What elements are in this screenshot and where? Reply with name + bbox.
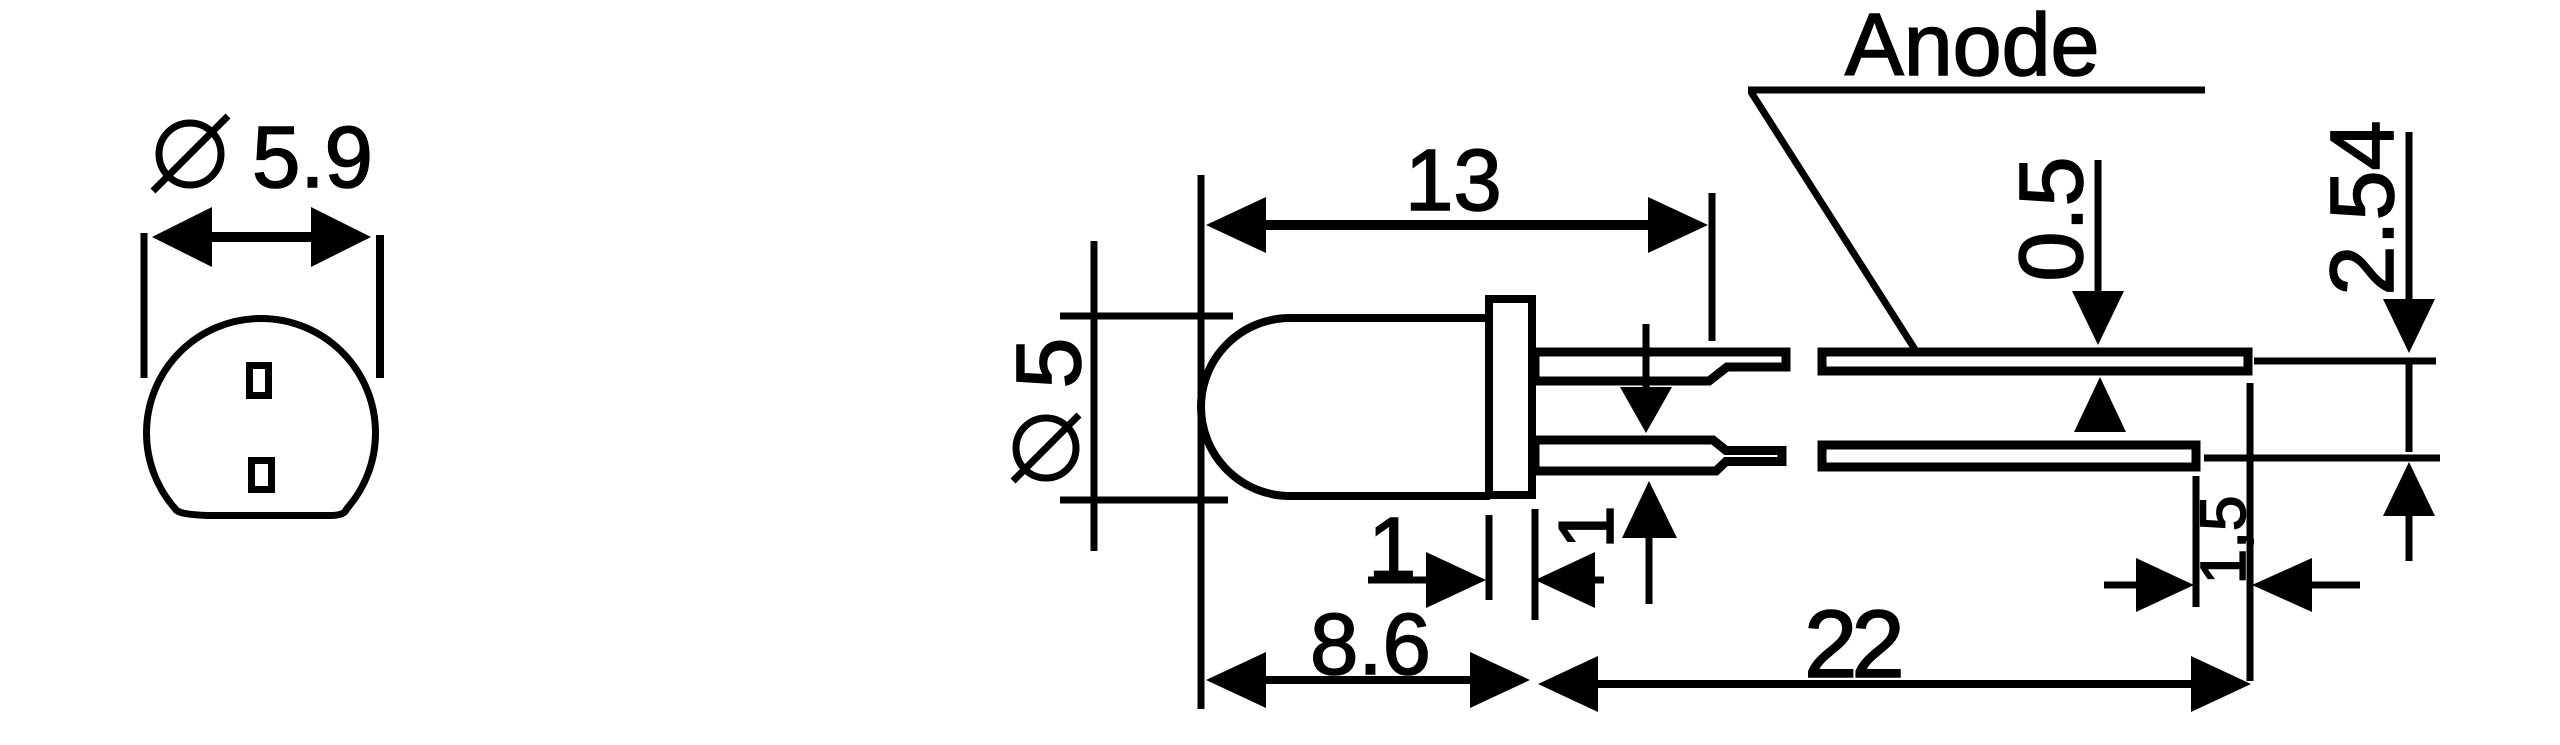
dimension line 5.9 (206, 232, 316, 242)
svg-text:5: 5 (998, 337, 1100, 388)
extension line from bottom lead end (2204, 455, 2440, 462)
svg-text:1: 1 (1542, 505, 1630, 548)
2.54 dim line lower tail (2406, 514, 2413, 561)
arrowhead down to lead top (2072, 291, 2124, 345)
dim line 1 left part (1368, 577, 1428, 584)
svg-text:0.5: 0.5 (2002, 156, 2102, 281)
arrowhead right-pointing (1.5 left) (2136, 558, 2194, 612)
2.54 dim line middle (2406, 362, 2413, 452)
arrowhead left-pointing (flange right) (1535, 552, 1595, 608)
LED body (dome) (1201, 318, 1490, 496)
LED package outline (circle with flat) (147, 318, 376, 515)
bottom lead outer segment (1822, 445, 2196, 467)
flange extension line left (1486, 515, 1493, 600)
arrowhead left-pointing (1.5 right) (2252, 558, 2312, 612)
extension line for dia 5 (1091, 241, 1098, 551)
dimension line 13 (1240, 220, 1680, 230)
dim tail right (1593, 577, 1604, 584)
2.54 dim line upper (2406, 132, 2413, 300)
tick top (dia 5) (1060, 313, 1233, 320)
arrowhead right-pointing (flange left) (1426, 552, 1486, 608)
Anode underline (1748, 87, 2205, 94)
arrowhead 13 left (1206, 197, 1266, 253)
bottom lead (cathode) inner segment (1535, 440, 1782, 471)
extension line 1.5 left (lead end) (2193, 476, 2200, 607)
tick bottom (dia 5) (1060, 497, 1228, 504)
1.5 dim right tail (2310, 582, 2360, 589)
svg-text:13: 13 (1405, 132, 1502, 229)
top lead outer segment (1822, 352, 2248, 371)
arrowhead 22 right (2191, 656, 2251, 712)
extension line 13 right (1709, 193, 1716, 341)
arrowhead 22 left (1538, 656, 1598, 712)
vertical dim line through top lead (1643, 324, 1650, 392)
extension line 22 right / 1.5 right (2247, 383, 2254, 681)
arrowhead down to top lead line (2383, 299, 2435, 353)
arrowhead down (to top of bottom lead) (1620, 387, 1672, 433)
arrowhead right (311, 207, 371, 267)
extension line from top lead end (2254, 358, 2436, 365)
long left extension line (dome tip) (1198, 175, 1205, 709)
extension line right (376, 235, 384, 378)
arrowhead up (to bottom of bottom lead) (1622, 481, 1677, 538)
leader tick on lead (1902, 348, 1940, 355)
flange (1489, 299, 1532, 495)
arrowhead up to lead bottom (2074, 377, 2126, 432)
arrowhead 8.6 right (1470, 652, 1530, 708)
svg-text:2.54: 2.54 (2313, 120, 2413, 295)
vertical dim tail below (1646, 536, 1653, 604)
svg-text:Anode: Anode (1845, 0, 2099, 94)
lead cross-section lower (252, 461, 272, 490)
0.5 dim line (2095, 160, 2102, 300)
arrowhead 8.6 left (1206, 652, 1266, 708)
dimension line 22 (1594, 680, 2195, 688)
extension line left (141, 233, 148, 378)
svg-text:5.9: 5.9 (252, 109, 373, 206)
diameter symbol for 5 (rotated label) (1013, 415, 1079, 481)
arrowhead left (152, 207, 212, 267)
flange extension line right (1532, 509, 1539, 620)
Anode leader line (1751, 92, 1916, 351)
top lead (anode) inner segment (1535, 352, 1786, 381)
svg-text:1,5: 1,5 (2187, 496, 2259, 585)
1.5 dim left tail (2104, 582, 2138, 589)
dimension line 8.6 (1262, 676, 1474, 684)
arrowhead up to bottom lead line (2383, 462, 2435, 516)
arrowhead 13 right (1648, 197, 1708, 253)
lead cross-section upper (250, 366, 269, 396)
diameter symbol for 5.9 (153, 116, 228, 191)
